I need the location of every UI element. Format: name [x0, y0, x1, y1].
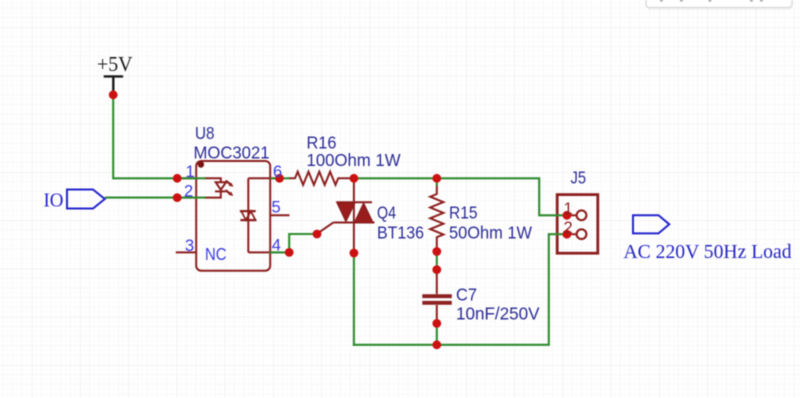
svg-text:50Ohm 1W: 50Ohm 1W — [449, 222, 533, 242]
svg-text:6: 6 — [273, 163, 282, 181]
svg-text:+5V: +5V — [97, 52, 133, 76]
svg-text:2: 2 — [184, 183, 193, 201]
svg-text:IO: IO — [44, 190, 64, 212]
svg-text:10nF/250V: 10nF/250V — [456, 304, 540, 324]
svg-text:MOC3021: MOC3021 — [194, 142, 270, 162]
svg-text:U8: U8 — [195, 123, 215, 143]
svg-text:J5: J5 — [571, 168, 587, 188]
svg-text:Q4: Q4 — [377, 202, 396, 222]
svg-text:1: 1 — [186, 163, 195, 181]
svg-text:C7: C7 — [456, 285, 477, 305]
svg-text:100Ohm 1W: 100Ohm 1W — [307, 150, 402, 170]
svg-text:BT136: BT136 — [377, 222, 424, 242]
svg-text:NC: NC — [205, 244, 227, 264]
svg-text:R15: R15 — [449, 202, 478, 222]
svg-text:5: 5 — [272, 199, 281, 217]
svg-text:1: 1 — [564, 200, 573, 218]
svg-text:3: 3 — [185, 237, 194, 255]
svg-text:2: 2 — [564, 219, 573, 237]
svg-text:4: 4 — [272, 236, 281, 254]
svg-text:AC 220V 50Hz Load: AC 220V 50Hz Load — [624, 241, 792, 263]
